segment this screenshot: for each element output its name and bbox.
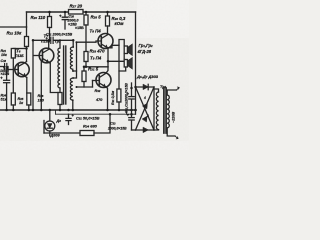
transistor T7 <box>39 48 54 63</box>
wire mains plug bottom <box>167 128 175 136</box>
resistor R28 <box>85 12 87 15</box>
resistor R21 <box>11 49 15 59</box>
resistor R34 <box>80 131 94 136</box>
wire Tr1 primary bottom to R26 <box>59 88 61 93</box>
wire speaker return <box>119 67 126 71</box>
transformer Tr1 secondary upper <box>70 47 72 71</box>
loudspeaker Gr1 <box>124 46 127 54</box>
diode bridge diagonal 2 <box>136 87 155 130</box>
resistor R20 <box>49 12 51 17</box>
transformer Tr1 secondary lower <box>70 78 72 100</box>
resistor R30 <box>107 12 109 16</box>
capacitor C22 <box>129 96 134 98</box>
diode D4 <box>143 84 148 89</box>
wire bridge right <box>153 87 155 130</box>
wire T9 base <box>93 80 100 82</box>
wire T6 emitter down <box>26 78 28 94</box>
resistor R26 <box>58 93 62 105</box>
wire Tr2 primary to bridge <box>154 89 159 92</box>
wire T7 base <box>34 55 43 57</box>
transistor T6 <box>15 62 29 76</box>
diode D8 stabilitron <box>45 121 55 131</box>
capacitor C23 <box>129 117 134 119</box>
wire to R29 <box>77 42 87 51</box>
resistor R25 <box>27 93 31 105</box>
wire with capacitor C21 line <box>33 39 50 41</box>
transistor T9 <box>96 73 111 88</box>
wire T8 emitter to speakers <box>108 40 124 48</box>
transformer Tr2 core <box>163 88 165 133</box>
wire T7 base rail down <box>40 61 42 110</box>
wire stabilizer bottom <box>44 132 80 134</box>
diode D6 <box>142 116 147 122</box>
capacitor C19 <box>6 70 8 81</box>
wire lower parallel line <box>56 113 136 115</box>
wire Tr1 right rail <box>72 40 74 47</box>
wire T7 emitter down <box>50 63 58 93</box>
wire rail x33 <box>32 40 34 110</box>
wire mains plug top <box>167 90 176 95</box>
wire T9 emitter down <box>106 87 108 110</box>
wire <box>26 12 28 27</box>
wire rail x131.5 with C22 C23 <box>131 83 133 96</box>
resistor R30b <box>83 67 85 71</box>
transformer Tr1 core <box>63 46 65 104</box>
wire T9 collector up <box>106 67 108 73</box>
junction dots <box>5 11 136 116</box>
wire bridge top <box>136 86 155 88</box>
wire mid rail <box>84 66 108 68</box>
wire top bus <box>27 11 136 13</box>
wire <box>0 26 27 28</box>
wire <box>26 27 28 37</box>
capacitor C21 <box>50 37 52 43</box>
diode D5 <box>143 103 148 109</box>
wire T7 collector up <box>48 40 50 49</box>
wire junction to speaker2 <box>108 60 124 62</box>
capacitor C20 <box>64 12 66 17</box>
capacitor C18 <box>4 64 6 70</box>
resistor R24 <box>11 93 15 105</box>
resistor R29 <box>84 52 88 62</box>
wire bottom bus <box>0 109 136 111</box>
transistor T8 <box>98 34 113 49</box>
transformer Tr2 secondary <box>167 95 169 128</box>
resistor R22 <box>25 37 29 47</box>
resistor R27 <box>69 10 84 15</box>
wire right rail <box>135 12 137 114</box>
diode bridge diagonal 1 <box>136 87 155 130</box>
loudspeaker Gr2 <box>123 54 125 60</box>
transformer Tr1 primary winding <box>58 48 60 88</box>
wire T8 collector down / junction <box>107 49 109 67</box>
resistor R31 fuse <box>117 89 121 102</box>
transformer Tr2 primary <box>156 92 158 130</box>
capacitor C21b small <box>68 114 70 118</box>
diode D7 <box>143 127 148 132</box>
wire R21 to R22 node <box>13 48 26 50</box>
wire bridge bottom <box>136 129 155 131</box>
